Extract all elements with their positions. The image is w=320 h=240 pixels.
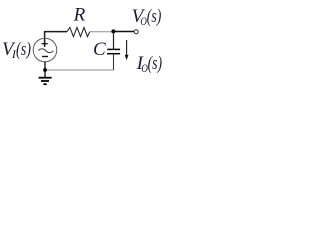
resistor R [67,27,90,36]
voltage source V1 circle [33,38,57,62]
ground bar 2 [41,80,49,82]
svg-text:C: C [93,39,106,60]
capacitor C bottom plate [107,53,120,55]
wire junction down to capacitor [113,32,115,50]
svg-text:(s): (s) [148,53,163,74]
wire capacitor to bottom rail [113,54,115,70]
wire junction to output terminal [113,31,134,33]
+ sign [42,43,48,45]
label Vi(s) [2,39,31,61]
wire top-left (source + lead up and right to resistor) [45,32,67,47]
svg-text:(s): (s) [16,39,31,60]
output terminal [134,30,138,34]
current arrow Io [126,40,128,56]
sine wave [39,49,54,53]
ground bar 1 [39,77,52,79]
label Io(s) [136,53,163,75]
capacitor C top plate [107,48,120,50]
ground junction dot [43,68,47,72]
svg-text:R: R [73,5,86,26]
node Vo junction dot [111,29,115,33]
minus sign [42,56,48,58]
source bottom lead / ground stem [44,62,46,77]
wire resistor to junction [90,31,113,33]
bottom rail wire [45,69,114,71]
svg-text:(s): (s) [147,6,162,27]
label Vo(s) [132,6,162,28]
ground bar 3 [43,83,46,85]
